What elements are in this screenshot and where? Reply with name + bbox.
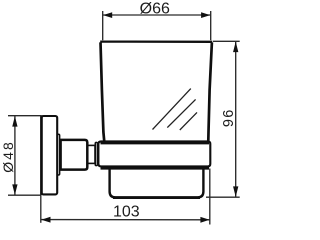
glass tumbler left side [101,42,105,141]
glass seat line inside ring top [101,142,210,145]
glass shine hatch line 1 [153,89,191,130]
dimension Ø48: bottom arrowhead [12,184,17,195]
glass shine hatch line 3 [180,112,197,130]
dimension Ø48: dimension line [14,116,16,195]
dimension 103: left extension line [40,195,42,223]
dimension 96: bottom arrowhead [233,186,238,197]
dish top rim line under ring [101,167,210,170]
dimension 103: right extension line [209,169,211,225]
wall plate thick left edge / wall line [40,115,43,195]
dimension 96: top arrowhead [233,42,238,53]
dimension 96: top extension line [213,40,240,42]
holder ring band outline [98,141,210,166]
collar flange at wall plate [57,134,59,175]
dimension 96: dimension line [235,42,237,198]
svg-text:Ø66: Ø66 [140,1,170,18]
svg-text:Ø48: Ø48 [0,140,16,172]
dimension 103: right arrowhead [200,217,209,223]
mounting arm body [61,140,88,170]
dimension 103: left arrowhead [41,217,50,223]
dimension Ø48: top arrowhead [12,116,17,127]
dimension Ø66: left arrowhead [103,12,112,18]
dimension Ø66: right arrowhead [201,12,210,18]
svg-text:103: 103 [113,203,140,220]
glass tumbler rim top edge [100,40,212,43]
glass tumbler right side [208,42,212,141]
arm neck [88,145,95,163]
svg-text:96: 96 [221,109,237,128]
dimension Ø48: bottom extension line [8,194,42,196]
frosted glass dish below ring [110,167,204,198]
wall mounting plate (side view) [42,116,58,194]
dimension 103: dimension line [41,219,209,221]
dimension 96: bottom extension line [206,196,240,198]
joint ring between arm and band [95,142,97,165]
dimension Ø66: left extension line [102,11,104,40]
glass shine hatch line 2 [167,99,195,127]
dimension Ø66: dimension line [103,14,211,16]
dimension Ø48: top extension line [8,115,42,117]
dish thick bottom edge [113,196,200,199]
dimension Ø66: right extension line [210,11,212,40]
